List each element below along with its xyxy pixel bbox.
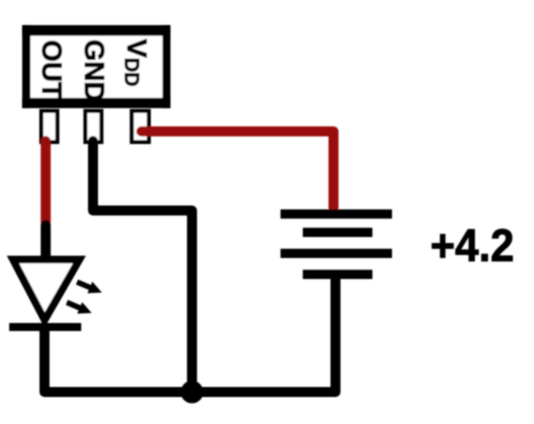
LED D1 cathode bar bbox=[9, 323, 81, 331]
LED D1 triangle bbox=[13, 260, 79, 321]
pin 3 (VDD) bbox=[132, 111, 149, 142]
svg-text:+4.2: +4.2 bbox=[430, 220, 514, 271]
LED arrow 2 bbox=[64, 297, 94, 319]
wire: red VDD wire right and down to battery + bbox=[141, 131, 333, 207]
svg-text:OUT: OUT bbox=[37, 40, 68, 99]
pin 2 (GND) bbox=[85, 111, 101, 142]
battery B1 plate 1 (long, +) bbox=[281, 209, 393, 218]
wire: black wire from OUT wire to LED anode bbox=[41, 225, 51, 260]
battery B1 plate 2 (short) bbox=[303, 228, 373, 237]
wire: GND wire down, right, down to junction bbox=[93, 141, 192, 392]
IC U1 body bbox=[22, 25, 170, 108]
pin 1 (OUT) bbox=[41, 111, 57, 142]
wire: red OUT wire vertical bbox=[41, 141, 51, 222]
wire: battery negative down, bottom rail left, up to LED cathode bbox=[45, 276, 336, 392]
svg-text:GND: GND bbox=[79, 40, 110, 102]
battery B1 plate 3 (long) bbox=[281, 249, 393, 258]
LED arrow 1 bbox=[75, 276, 105, 298]
battery B1 plate 4 (short, -) bbox=[303, 270, 373, 279]
node: junction dot bbox=[181, 381, 204, 404]
